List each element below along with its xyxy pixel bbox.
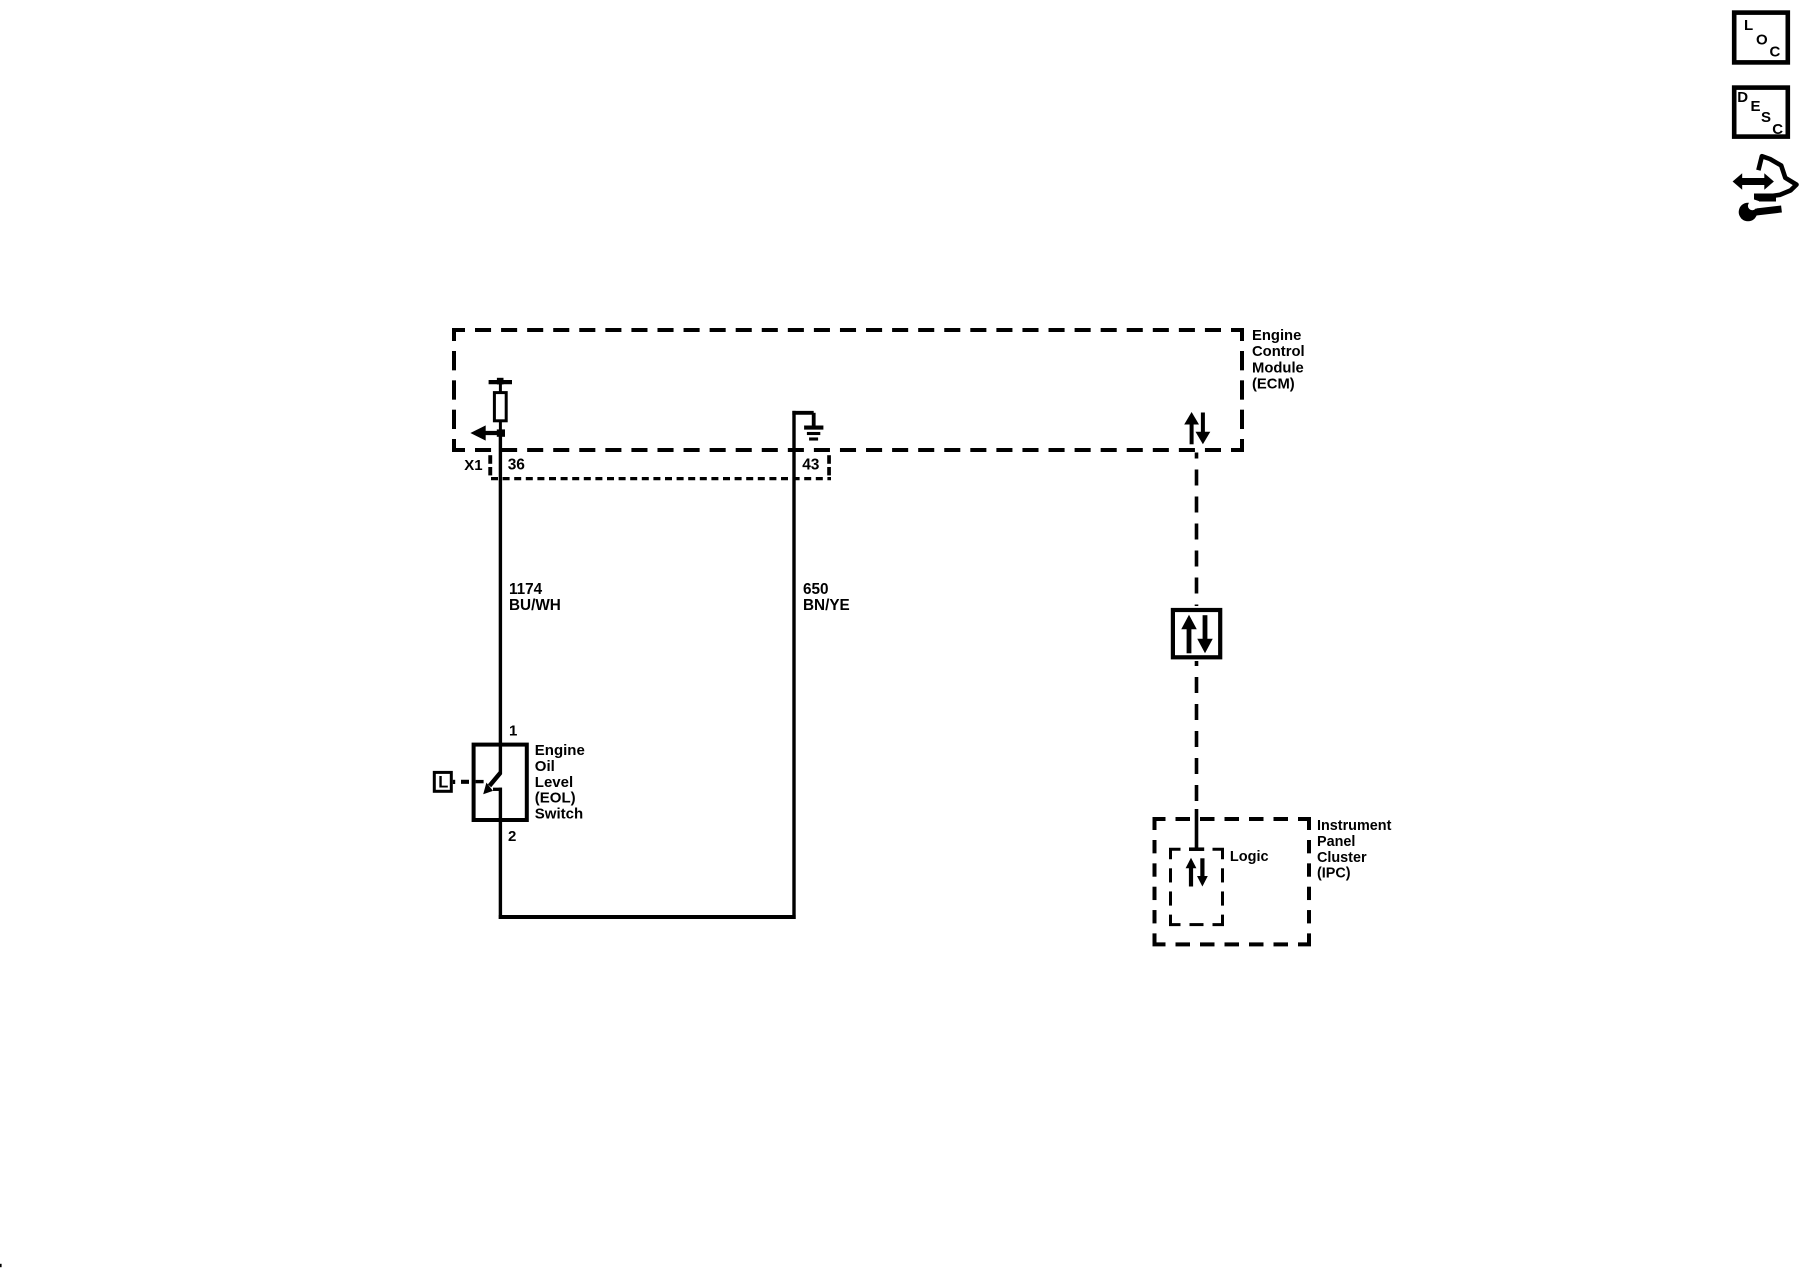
svg-text:Control: Control [1252,344,1305,360]
svg-text:C: C [1772,121,1783,138]
svg-text:2: 2 [508,828,516,845]
svg-text:36: 36 [508,457,526,474]
svg-text:Instrument: Instrument [1317,818,1392,834]
svg-text:(EOL): (EOL) [535,790,576,807]
svg-text:L: L [438,774,448,792]
svg-text:BN/YE: BN/YE [803,597,850,614]
svg-text:C: C [1770,44,1781,61]
svg-text:E: E [1751,98,1761,115]
svg-text:Logic: Logic [1230,849,1269,865]
svg-text:Panel: Panel [1317,834,1355,850]
svg-text:650: 650 [803,581,829,598]
svg-text:Oil: Oil [535,758,555,775]
svg-text:Engine: Engine [535,742,585,759]
svg-text:Level: Level [535,774,573,791]
svg-text:Cluster: Cluster [1317,850,1367,866]
svg-text:Module: Module [1252,360,1304,376]
svg-text:Switch: Switch [535,806,583,823]
svg-text:L: L [1744,17,1753,34]
svg-text:S: S [1761,109,1771,126]
svg-text:BU/WH: BU/WH [509,597,561,614]
svg-text:43: 43 [802,457,820,474]
svg-text:Engine: Engine [1252,328,1301,344]
svg-text:1174: 1174 [509,581,543,598]
svg-text:1: 1 [509,723,517,740]
svg-text:X1: X1 [464,457,482,474]
svg-text:D: D [1737,89,1748,106]
svg-text:(IPC): (IPC) [1317,866,1351,882]
svg-text:(ECM): (ECM) [1252,377,1295,393]
svg-text:O: O [1756,31,1768,48]
